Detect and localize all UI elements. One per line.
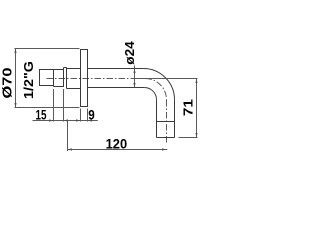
thread relief double line <box>64 68 67 89</box>
svg-text:1/2"G: 1/2"G <box>22 61 36 99</box>
svg-text:120: 120 <box>106 136 128 152</box>
threaded stub section A <box>40 70 64 86</box>
dim O70 line <box>15 49 17 108</box>
dim 9 ext right <box>87 109 89 122</box>
dim 9 ext left <box>80 109 82 122</box>
tube top edge <box>88 68 144 70</box>
svg-text:Ø70: Ø70 <box>1 67 15 98</box>
svg-text:15: 15 <box>36 107 47 123</box>
dim 71 ext bottom <box>179 137 198 139</box>
dim o24 arrows <box>133 69 135 88</box>
dim 9 arrows <box>76 119 92 121</box>
dim O70 extension bottom <box>15 107 80 109</box>
pipe section C bottom <box>67 88 81 90</box>
svg-text:71: 71 <box>182 99 196 116</box>
bend outer arc <box>143 69 174 100</box>
dim 71 ext top <box>135 78 198 80</box>
dim o24 line <box>134 66 136 88</box>
dim 120 line <box>68 149 168 151</box>
centerline horizontal <box>47 78 145 80</box>
pipe section C top <box>67 68 81 70</box>
tube bottom edge <box>88 87 145 89</box>
down leg left edge <box>156 100 158 138</box>
centerline vertical <box>166 100 168 145</box>
flange <box>81 50 88 107</box>
dim 71 arrows <box>195 79 197 138</box>
dim 15-9 line <box>33 120 98 122</box>
centerline bend arc <box>145 79 166 100</box>
svg-text:ø24: ø24 <box>123 41 137 65</box>
down leg right edge <box>174 100 176 138</box>
tube end bottom <box>157 137 175 139</box>
dim 15 ext right <box>63 89 65 122</box>
dim O70 arrows <box>14 49 16 108</box>
svg-text:9: 9 <box>88 107 95 123</box>
stub section B bottom <box>54 86 64 88</box>
dim 15 arrows <box>49 119 68 121</box>
dim 120 arrows <box>68 148 167 150</box>
dim 120 ext left <box>67 121 69 151</box>
stub boundary line <box>53 70 55 87</box>
bend inner arc <box>144 88 156 100</box>
dim 71 line <box>196 79 198 138</box>
tube joint line <box>157 121 175 123</box>
dim O70 extension top <box>15 48 80 50</box>
dim 15 ext left <box>53 89 55 122</box>
